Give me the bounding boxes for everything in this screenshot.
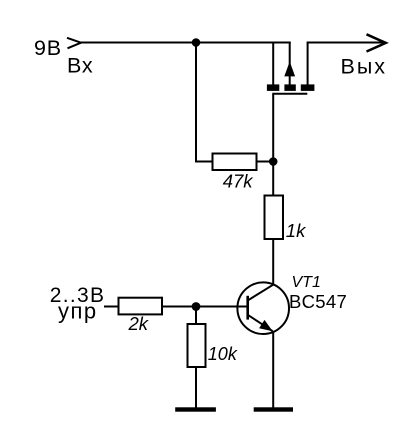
svg-text:Вых: Вых — [341, 55, 388, 79]
ground (left) — [175, 407, 216, 411]
svg-text:Вх: Вх — [67, 54, 93, 78]
svg-text:BC547: BC547 — [289, 291, 347, 312]
wire: junction down and over to 47k left end — [196, 43, 213, 162]
svg-text:2k: 2k — [128, 313, 150, 334]
node: base / 10k junction — [192, 302, 201, 311]
wire: junction down to 1k — [272, 162, 274, 197]
transistor Q1 p-channel MOSFET — [267, 42, 315, 94]
resistor 2k — [119, 298, 163, 315]
svg-text:упр: упр — [58, 299, 98, 324]
wire: emitter to ground — [272, 332, 274, 408]
ground (right) — [254, 407, 293, 411]
wire: +9V top rail left segment — [81, 42, 291, 44]
wire: top rail right segment to output — [307, 42, 384, 44]
wire: 47k right end to gate node — [256, 161, 273, 163]
node: gate / divider junction — [269, 157, 278, 166]
wire: junction down to 10k — [195, 307, 197, 325]
svg-text:VT1: VT1 — [292, 274, 321, 291]
svg-text:47k: 47k — [223, 171, 255, 192]
terminal arrow: Вых output — [367, 34, 386, 51]
svg-text:10k: 10k — [208, 344, 238, 364]
resistor 10k — [188, 324, 206, 367]
wire: 1k to collector — [272, 239, 274, 285]
transistor VT1 BC547 — [237, 282, 289, 334]
wire: 10k to ground — [195, 367, 197, 408]
terminal arrow: 9V input — [67, 38, 81, 49]
resistor 1k — [265, 196, 284, 240]
wire: control input to base — [104, 306, 247, 308]
resistor 47k — [213, 154, 257, 171]
wire: gate lead down to junction — [272, 94, 274, 162]
svg-text:1k: 1k — [286, 220, 307, 241]
svg-text:9В: 9В — [34, 36, 62, 60]
node: 9V rail / 47k branch junction — [192, 38, 201, 47]
